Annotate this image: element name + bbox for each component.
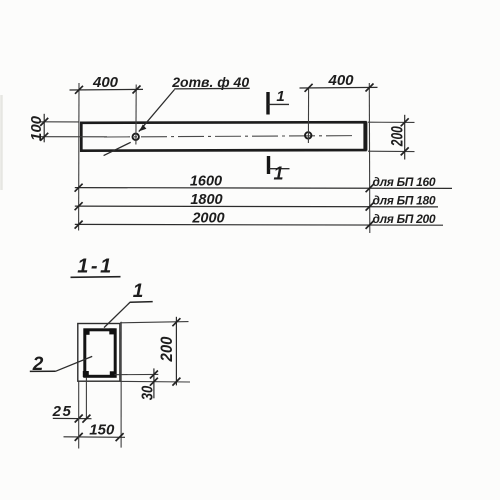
- section left extension line (below): [78, 381, 80, 448]
- dimension 100 left: extension top: [41, 121, 80, 123]
- dimension 100 left: tick 1: [40, 118, 48, 126]
- dimension 400 right: tick 1: [305, 84, 313, 92]
- svg-text:для БП 180: для БП 180: [373, 194, 436, 208]
- hole 2 vertical axis / extension line: [307, 88, 309, 143]
- section dim 30: tick 1: [150, 371, 158, 379]
- dimension 200 right (elevation): tick 1: [401, 118, 409, 126]
- svg-text:200: 200: [157, 336, 176, 362]
- svg-text:400: 400: [92, 74, 119, 91]
- svg-text:200: 200: [387, 126, 406, 147]
- stirrup (item 1): [85, 330, 115, 377]
- section dim 200: tick 2: [172, 378, 180, 386]
- dimension 200 right (elevation): tick 2: [401, 147, 409, 155]
- section dim 200: dim line: [175, 317, 177, 386]
- svg-text:2отв. ф 40: 2отв. ф 40: [171, 74, 249, 90]
- dimension 200 right (elevation): extension top: [368, 121, 415, 123]
- section dim 30: extension line: [115, 373, 159, 375]
- label 1 underline: [130, 301, 153, 304]
- leader arrowhead at hole 1: [139, 124, 146, 131]
- rebar dot top-right: [109, 328, 115, 334]
- beam outline (elevation): [81, 122, 365, 151]
- section mark 1 top: flag line: [268, 103, 289, 105]
- dimension row 1800: line: [75, 205, 438, 208]
- svg-text:1-1: 1-1: [77, 256, 113, 278]
- section dim 25: extension from rebar: [85, 378, 87, 420]
- svg-text:1: 1: [276, 88, 284, 105]
- svg-text:150: 150: [89, 422, 115, 439]
- label 1 leader: [104, 302, 130, 328]
- beam centerline: [104, 136, 356, 137]
- dimension row 1600: tick left: [75, 184, 83, 192]
- section dim 30: dim line: [153, 368, 155, 398]
- svg-text:1600: 1600: [190, 174, 222, 190]
- label 2 leader: [56, 356, 92, 371]
- dimension 100 left: dim line: [43, 114, 45, 143]
- dimension 400 right: tick 2: [366, 84, 374, 92]
- label 2 underline: [30, 370, 56, 372]
- dimension row 1600: line: [75, 187, 452, 190]
- dimension row 1800: tick left: [75, 202, 83, 210]
- section dim 200: extension top: [120, 322, 189, 323]
- label 2otv f40 underline shelf: [174, 87, 249, 90]
- section mark 1 bottom: thick stroke: [267, 156, 270, 174]
- svg-text:400: 400: [327, 72, 354, 89]
- svg-text:100: 100: [28, 115, 45, 141]
- leader to hole 1 (lower segment): [104, 142, 131, 155]
- scan artifact streak at left edge: [0, 95, 3, 190]
- hole 1 vertical axis / extension line: [135, 85, 137, 145]
- section dim 200: extension bottom: [120, 380, 190, 383]
- dimension 200 right (elevation): extension bottom: [368, 150, 415, 152]
- rebar dot bottom-right: [110, 371, 116, 377]
- section right extension line (to 150 dim): [120, 322, 122, 448]
- section dim 200: tick 1: [172, 318, 180, 326]
- section dim 25: tick 1: [75, 415, 83, 423]
- dimension 100 left: extension bottom: [41, 136, 108, 138]
- section concrete outline: [78, 324, 120, 382]
- svg-text:25: 25: [52, 403, 73, 420]
- svg-text:1800: 1800: [190, 192, 222, 208]
- dimension 400 right: line: [300, 86, 378, 89]
- svg-text:для БП 200: для БП 200: [373, 212, 436, 226]
- svg-text:1: 1: [133, 281, 144, 302]
- rebar dot bottom-left: [83, 371, 89, 377]
- section dim 30: tick 2: [150, 378, 158, 386]
- svg-text:1: 1: [273, 164, 283, 184]
- svg-text:2000: 2000: [191, 210, 224, 226]
- dimension 400 left: tick 2: [133, 86, 141, 94]
- section dim 25: dim line: [53, 417, 92, 419]
- section title underline: [71, 276, 121, 279]
- section dim 25: tick 2: [82, 415, 90, 423]
- svg-text:30: 30: [139, 386, 156, 401]
- section dim 150: dim line: [64, 436, 126, 439]
- section dim 150: tick 2: [116, 433, 124, 441]
- dimension row 2000: line: [75, 223, 443, 226]
- hole 1 (left, d40): [133, 134, 139, 140]
- dimension 400 left: line: [70, 88, 144, 91]
- svg-text:для БП 160: для БП 160: [373, 175, 436, 189]
- dimension row 1800: tick right: [366, 203, 374, 211]
- section mark 1 bottom: flag line: [269, 168, 290, 170]
- dimension 400 left: tick 1: [75, 86, 83, 94]
- extension line left (beam left end): [78, 83, 80, 231]
- beam right edge thick stroke: [363, 122, 367, 151]
- hole 2 (right, d40): [305, 132, 311, 138]
- extension line right (beam right end): [368, 83, 371, 233]
- dimension row 2000: tick left: [75, 221, 83, 229]
- leader to hole 1 (upper segment): [139, 90, 175, 132]
- dimension row 2000: tick right: [366, 221, 374, 229]
- dimension 200 right (elevation): dim line: [404, 115, 406, 160]
- dimension 100 left: tick 2: [40, 133, 48, 141]
- section dim 150: tick 1: [75, 433, 83, 441]
- section mark 1 top: thick stroke: [266, 92, 269, 115]
- dimension row 1600: tick right: [366, 184, 374, 192]
- rebar dot top-left: [84, 329, 90, 335]
